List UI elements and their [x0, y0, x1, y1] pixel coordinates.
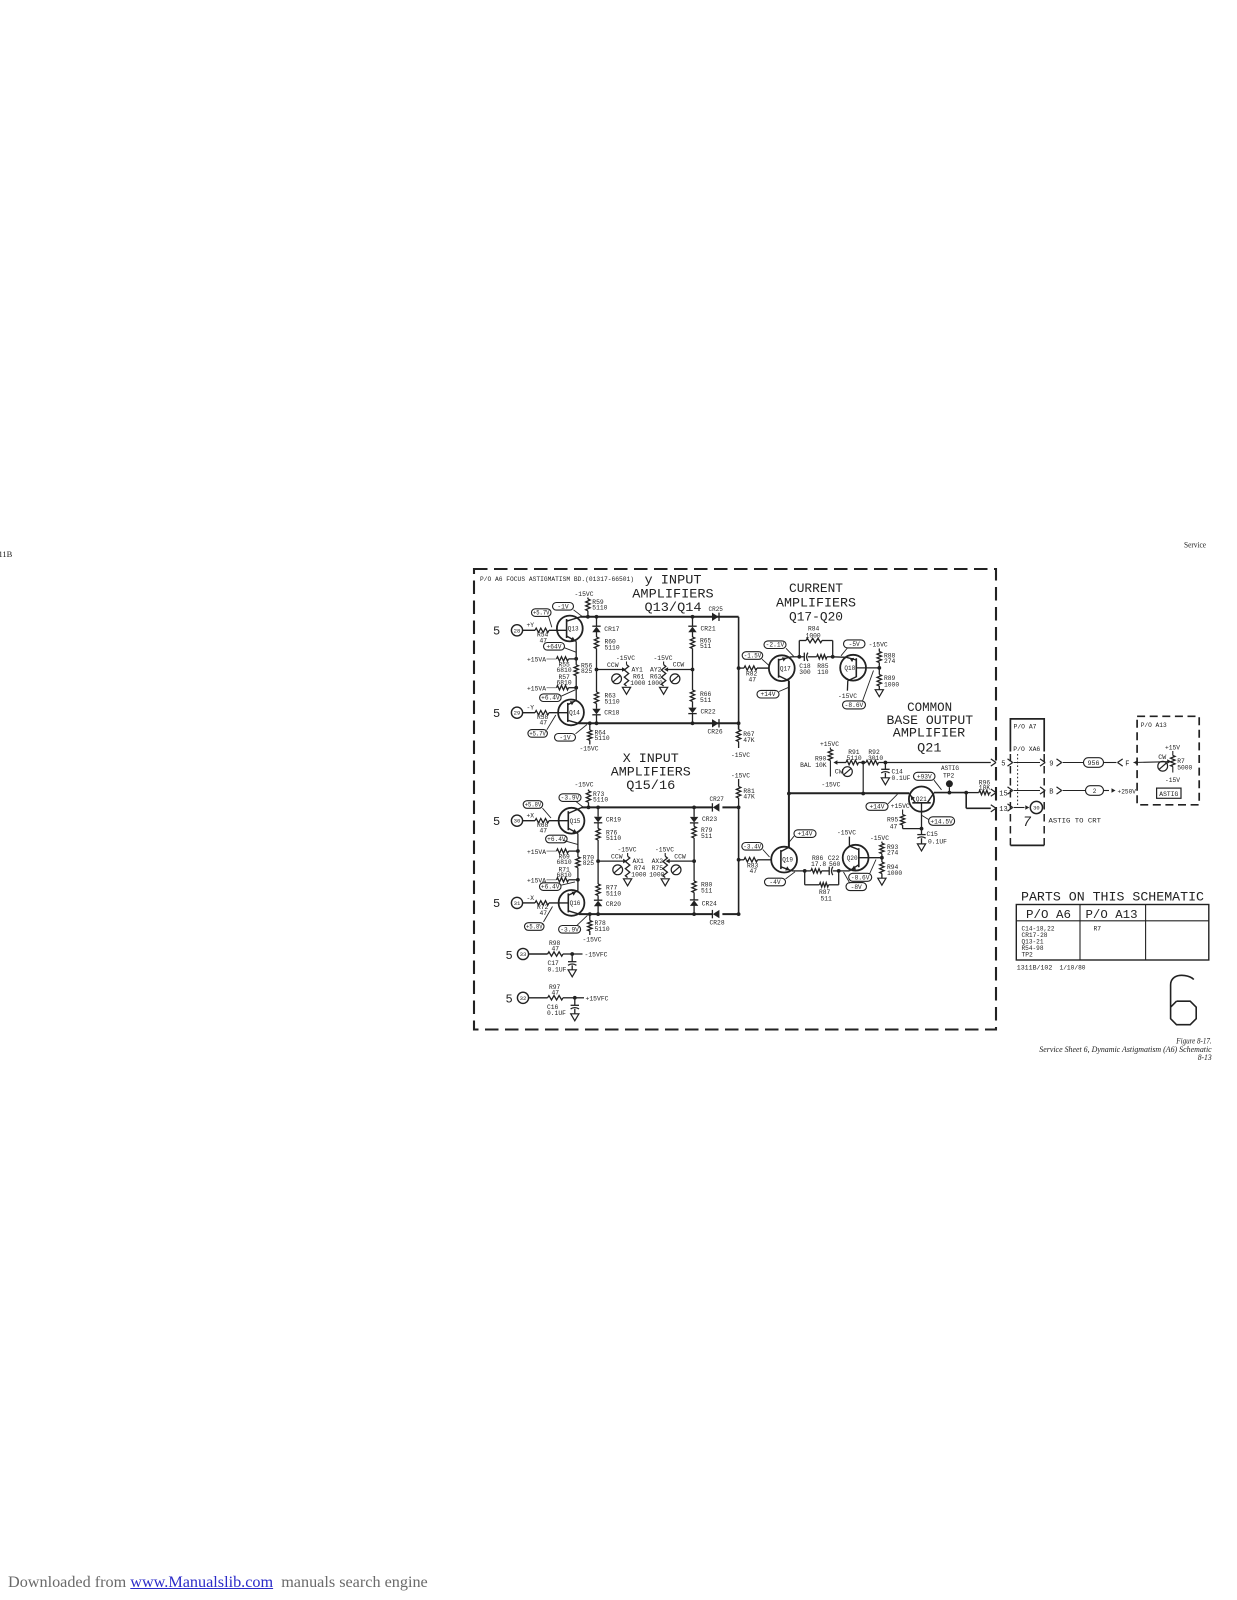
power -15VC label (R81)	[731, 772, 750, 779]
ground below R89	[875, 690, 883, 697]
svg-text:-15VC: -15VC	[869, 642, 888, 649]
svg-text:ASTIG: ASTIG	[941, 765, 959, 772]
pin 29 (-Y) with 5 label	[493, 705, 534, 721]
svg-text:CR23: CR23	[702, 816, 717, 823]
wire Y top bus	[581, 616, 739, 618]
svg-text:F: F	[1125, 760, 1129, 768]
svg-text:5110: 5110	[595, 926, 610, 933]
ground below R94	[878, 878, 886, 885]
resistor R91 5110	[846, 749, 866, 765]
power -15VC label (R90 bottom)	[821, 781, 840, 788]
svg-text:5: 5	[493, 707, 500, 721]
svg-text:-15V: -15V	[1165, 777, 1180, 784]
resistor R95 47	[887, 810, 922, 831]
svg-text:+5.8V: +5.8V	[526, 924, 543, 931]
junction R56/R57/Q14 collector	[574, 686, 578, 690]
svg-text:13: 13	[999, 806, 1007, 814]
junction R65/AY2 wiper	[691, 668, 695, 672]
voltage callout -2.1V (Q17 collector)	[764, 641, 794, 657]
svg-text:COMMON: COMMON	[907, 701, 952, 715]
svg-text:-15VC: -15VC	[731, 752, 750, 759]
svg-text:CR25: CR25	[709, 606, 724, 613]
svg-text:274: 274	[887, 850, 899, 857]
diode CR20	[594, 900, 621, 914]
junction Q13 emitter / R55 / R56	[574, 657, 578, 661]
svg-text:y INPUT: y INPUT	[645, 573, 703, 587]
resistor R80 511	[692, 861, 713, 900]
voltage callout +6.4V (Q15 emitter)	[546, 835, 578, 844]
resistor R73 5110	[586, 790, 608, 808]
svg-text:47: 47	[552, 990, 560, 997]
svg-text:47: 47	[750, 868, 758, 875]
service sheet number 6 glyph	[1171, 975, 1197, 1024]
svg-text:5110: 5110	[605, 645, 620, 652]
svg-text:+5.7V: +5.7V	[529, 730, 546, 737]
power -15VC label (R73)	[575, 781, 594, 788]
page header text Service	[1184, 541, 1206, 550]
diode CR28 on X bottom bus	[710, 910, 725, 927]
svg-text:274: 274	[884, 658, 896, 665]
svg-text:-15VC: -15VC	[870, 835, 889, 842]
junction R97/C16	[573, 996, 577, 1000]
voltage callout +6.4V (Q16 collector)	[540, 882, 576, 891]
junction R96 / pin13 branch	[964, 791, 968, 795]
title Y INPUT AMPLIFIERS Q13/Q14	[632, 573, 713, 615]
wire Q18 emitter to -15VC	[846, 681, 848, 691]
diode CR25 on Y top bus	[709, 606, 724, 621]
label ASTIG TO CRT	[1049, 818, 1102, 825]
junction Q15 emitter / R69 / R70	[576, 849, 580, 853]
svg-text:7: 7	[1023, 814, 1031, 829]
junction Q21 base / R95 / C15	[920, 827, 924, 831]
exit arrow node 15 at border	[991, 789, 1008, 798]
svg-text:ASTIG: ASTIG	[1159, 791, 1178, 798]
svg-text:C15: C15	[927, 831, 939, 838]
power -15VC label (Q18 emitter)	[838, 693, 857, 700]
svg-text:6810: 6810	[557, 680, 572, 687]
resistor R82 47	[739, 666, 769, 684]
svg-text:5000: 5000	[1177, 764, 1192, 771]
svg-text:CR20: CR20	[606, 901, 621, 908]
svg-text:AY2: AY2	[650, 666, 662, 673]
svg-text:5: 5	[506, 949, 513, 963]
voltage callout +14.5V (Q21 base)	[922, 816, 955, 826]
svg-text:-15VC: -15VC	[837, 829, 856, 836]
exit arrow node 5 at border	[991, 759, 1006, 768]
svg-text:B: B	[1049, 788, 1053, 796]
svg-text:-4V: -4V	[769, 879, 781, 886]
svg-text:AY1: AY1	[632, 666, 644, 673]
svg-text:+14V: +14V	[870, 804, 885, 811]
svg-text:Q20: Q20	[847, 855, 858, 862]
resistor R54 47	[535, 628, 549, 644]
svg-text:CR28: CR28	[710, 920, 725, 927]
capacitor C18 300	[799, 653, 816, 676]
svg-text:511: 511	[821, 895, 833, 902]
power -15VC label (Q20 collector)	[837, 829, 856, 836]
svg-text:5: 5	[493, 897, 500, 911]
svg-text:-15VC: -15VC	[838, 693, 857, 700]
schematic board dashed border (P/O A6)	[474, 569, 996, 1030]
figure caption	[1039, 1036, 1212, 1062]
wire right vertical (CR25 bus to R67)	[738, 617, 740, 730]
svg-text:PARTS ON THIS SCHEMATIC: PARTS ON THIS SCHEMATIC	[1021, 890, 1204, 905]
svg-text:-15VC: -15VC	[583, 936, 602, 943]
svg-text:CCW: CCW	[611, 854, 623, 861]
svg-text:10K: 10K	[979, 785, 991, 792]
svg-text:-8.6V: -8.6V	[845, 702, 864, 709]
svg-text:AX2: AX2	[652, 858, 664, 865]
svg-text:+5.7V: +5.7V	[533, 610, 550, 617]
svg-text:511: 511	[701, 833, 713, 840]
wire branch down to pin 13 row	[966, 793, 991, 809]
resistor R58 47	[535, 711, 549, 727]
junction R79/AX2 wiper	[692, 859, 696, 863]
trimmer mark R7	[1158, 761, 1168, 771]
parts list column A13 R7	[1094, 926, 1102, 933]
svg-text:Q21: Q21	[917, 742, 941, 756]
svg-text:+14V: +14V	[798, 831, 813, 838]
svg-text:TP2: TP2	[943, 772, 955, 779]
document number 1311B/102 1/10/80	[1017, 964, 1086, 971]
panel label ASTIG boxed	[1157, 788, 1181, 798]
pot AY1 R61 1000 with CCW and -15VC	[597, 655, 646, 687]
trimmer mark AX2	[671, 865, 681, 875]
resistor R70 825	[576, 851, 595, 880]
svg-text:47K: 47K	[743, 737, 755, 744]
transistor Q14	[558, 700, 584, 726]
svg-text:P/O A6: P/O A6	[1026, 909, 1071, 922]
svg-text:1000: 1000	[631, 871, 646, 878]
resistor R83 47	[739, 858, 772, 876]
svg-text:X INPUT: X INPUT	[623, 752, 680, 766]
pin 33 with 5 label	[506, 948, 529, 962]
resistor R68 47	[535, 819, 549, 835]
svg-text:R7: R7	[1094, 926, 1102, 933]
diode CR27 on X top bus	[710, 796, 725, 811]
transistor Q17	[769, 655, 795, 681]
svg-text:+15VC: +15VC	[820, 741, 839, 748]
voltage callout -1.5V (Q17 base)	[742, 652, 769, 666]
svg-text:0.1UF: 0.1UF	[928, 838, 947, 845]
svg-text:Q15: Q15	[570, 818, 581, 825]
left margin text 11B	[0, 549, 13, 559]
svg-text:-15VC: -15VC	[731, 772, 750, 779]
svg-text:825: 825	[581, 668, 593, 675]
resistor R84 1000 feedback	[799, 626, 832, 657]
exit arrow node 13 at border	[991, 805, 1008, 814]
resistor R72 47	[535, 901, 549, 917]
pot R7 5000 ASTIG	[1167, 751, 1192, 773]
node junctions on X buses	[587, 806, 741, 916]
svg-text:+14.5V: +14.5V	[930, 819, 953, 826]
service sheet number 7	[1023, 814, 1031, 829]
svg-text:CCW: CCW	[673, 662, 685, 669]
wire X top bus	[582, 806, 739, 808]
svg-text:-15VC: -15VC	[575, 781, 594, 788]
junction Q20 base/R93/R94	[880, 856, 884, 860]
transistor Q13	[557, 616, 583, 642]
wire Q20 collector to -15VC	[848, 837, 851, 847]
voltage callout +64V (Q13 emitter)	[544, 643, 577, 653]
svg-text:5110: 5110	[605, 699, 620, 706]
svg-text:-15VC: -15VC	[655, 847, 674, 854]
voltage callout +5.8V (Q16 base)	[525, 907, 553, 931]
assembly box P/O A13 dashed	[1137, 716, 1199, 805]
svg-text:30: 30	[514, 818, 521, 825]
resistor R60 5110	[594, 637, 620, 670]
power +15VA label (upper, Y)	[527, 657, 557, 664]
svg-text:-15VC: -15VC	[618, 847, 637, 854]
voltage callout -3.4V (Q19 base)	[742, 843, 770, 858]
svg-text:R95: R95	[887, 816, 899, 823]
svg-text:Service: Service	[1184, 541, 1206, 550]
ground below C16	[571, 1014, 579, 1021]
power +15V label (R7)	[1165, 745, 1180, 752]
transistor Q20	[843, 845, 869, 871]
svg-text:9: 9	[1049, 760, 1053, 768]
resistor R66 511	[690, 670, 711, 708]
svg-text:5: 5	[493, 625, 500, 639]
svg-text:BAL 10K: BAL 10K	[800, 762, 827, 769]
resistor R55 6810	[557, 657, 577, 674]
svg-text:511: 511	[700, 643, 712, 650]
voltage callout -1V (Q14 emitter)	[555, 725, 588, 742]
XA6 pin row 15-B	[1008, 787, 1086, 797]
junction R84/R85 right	[831, 655, 835, 659]
svg-text:47: 47	[890, 823, 898, 830]
resistor R89 1000	[877, 668, 899, 690]
capacitor C14 0.1UF	[881, 763, 910, 782]
svg-text:-15VC: -15VC	[654, 655, 673, 662]
svg-text:1000: 1000	[806, 633, 821, 640]
resistor R97 47	[529, 984, 575, 1000]
svg-text:TP2: TP2	[1022, 952, 1034, 959]
svg-text:-15VC: -15VC	[580, 746, 599, 753]
voltage callout -5V (Q18 collector)	[841, 640, 865, 656]
svg-text:+64V: +64V	[547, 643, 562, 650]
resistor R57 6810	[527, 674, 576, 692]
svg-text:P/O A13: P/O A13	[1141, 722, 1167, 729]
resistor R86 17.8	[805, 855, 830, 873]
svg-text:110: 110	[817, 669, 829, 676]
wire Q18 base to R88/R89	[856, 667, 879, 669]
voltage callout -4V (Q19 emitter)	[765, 872, 796, 886]
svg-text:8-13: 8-13	[1198, 1053, 1212, 1062]
resistor R77 5110	[596, 861, 621, 900]
trimmer mark R90	[843, 767, 853, 777]
diode CR17	[592, 617, 619, 637]
power -15V label (R7 bottom)	[1165, 777, 1180, 784]
destination circle 30	[1030, 801, 1042, 813]
power -15VC label (R93)	[870, 835, 889, 842]
svg-text:560: 560	[829, 861, 841, 868]
svg-text:Q19: Q19	[782, 857, 793, 864]
title COMMON BASE OUTPUT AMPLIFIER Q21	[887, 701, 974, 756]
junction C18/R84 left	[797, 655, 801, 659]
svg-text:6810: 6810	[557, 667, 572, 674]
svg-text:5110: 5110	[606, 891, 621, 898]
voltage callout +93V (Q21 collector)	[914, 772, 942, 790]
voltage callout -8.6V (Q20 base)	[849, 860, 876, 882]
svg-text:5110: 5110	[592, 605, 607, 612]
wire jumper 956	[1084, 758, 1117, 768]
power -15VC label (R67)	[731, 752, 750, 759]
svg-text:CR19: CR19	[606, 816, 621, 823]
junction R82 tap on CR25 column	[737, 666, 741, 670]
svg-text:956: 956	[1088, 760, 1100, 767]
voltage callout -1V (Q13 collector)	[553, 603, 582, 617]
pin 28 (+Y) with 5 label	[493, 622, 534, 638]
ground below C17	[568, 970, 576, 977]
wire pin28 to R54	[523, 629, 535, 631]
voltage callout +5.8V (Q15 base)	[523, 801, 551, 818]
pin 31 (-X) with 5 label	[493, 895, 534, 911]
svg-text:300: 300	[799, 669, 811, 676]
voltage callout -3.9V (Q15 collector)	[559, 794, 583, 807]
power +15VA label (upper, X)	[527, 849, 557, 856]
svg-text:28: 28	[514, 627, 521, 634]
CW label (R7)	[1158, 754, 1166, 761]
node junctions on Y buses	[586, 615, 740, 725]
ground below C14	[881, 778, 889, 785]
svg-text:Q16: Q16	[570, 900, 581, 907]
svg-text:+93V: +93V	[917, 774, 932, 781]
power -15VC label (R88)	[869, 642, 888, 649]
resistor R56 825	[574, 659, 593, 688]
svg-text:33: 33	[520, 951, 527, 958]
svg-text:47: 47	[540, 828, 548, 835]
wire Q20 base to R93/R94	[859, 857, 882, 859]
svg-text:-X: -X	[527, 895, 535, 902]
svg-text:+15VFC: +15VFC	[586, 995, 609, 1002]
connector box P/O A7	[1010, 719, 1044, 752]
junction R86/R87 left	[803, 869, 807, 873]
resistor R87 511 (parallel)	[805, 871, 839, 903]
parts table header P/O A13	[1086, 909, 1138, 922]
transistor Q18	[840, 655, 866, 681]
ground below C15	[917, 844, 925, 851]
svg-text:AMPLIFIERS: AMPLIFIERS	[632, 587, 713, 601]
wire R58 to Q14 base	[549, 712, 568, 714]
svg-text:+15VA: +15VA	[527, 657, 546, 664]
power -15VFC label	[572, 952, 608, 959]
capacitor C17 0.1UF	[548, 954, 577, 973]
wire Q21 collector line to R96	[934, 792, 966, 794]
power +15VC label (R90)	[820, 741, 839, 748]
svg-text:11B: 11B	[0, 549, 13, 559]
trimmer mark AX1	[613, 865, 623, 875]
svg-text:CR27: CR27	[710, 796, 725, 803]
parts list column A6	[1022, 926, 1055, 959]
transistor Q21 (rotated)	[909, 787, 934, 812]
svg-text:Q18: Q18	[844, 665, 855, 672]
svg-text:Q21: Q21	[916, 796, 927, 803]
svg-text:CR21: CR21	[701, 625, 716, 632]
wire Q21 feed line	[789, 792, 909, 794]
voltage callout -8.6V (Q18)	[843, 671, 874, 710]
diode CR18	[592, 709, 619, 724]
board title label	[480, 576, 634, 583]
voltage callout +6.4V (Q14 collector)	[540, 690, 576, 702]
svg-text:31: 31	[514, 900, 521, 907]
wire Q21 base down to C15	[921, 803, 923, 829]
wire Q13 emitter down	[575, 641, 577, 658]
svg-text:1/10/80: 1/10/80	[1060, 964, 1086, 971]
svg-text:+X: +X	[527, 813, 535, 820]
wire R72 to Q16 base	[549, 902, 568, 904]
trimmer mark AY1	[612, 674, 622, 684]
resistor R85 110	[817, 655, 833, 676]
svg-text:0.1UF: 0.1UF	[548, 966, 567, 973]
wire pin30 to R68	[523, 820, 535, 822]
svg-text:+15V: +15V	[1165, 745, 1180, 752]
svg-text:CW: CW	[1158, 754, 1166, 761]
junction main vertical / Q21 feed	[787, 792, 791, 796]
svg-text:1000: 1000	[887, 870, 902, 877]
voltage callout +14V (Q19 collector)	[789, 830, 816, 842]
transistor Q19	[771, 847, 797, 873]
svg-text:CR22: CR22	[701, 708, 716, 715]
wire C22 to Q20 emitter	[839, 870, 850, 872]
pin 32 with 5 label	[506, 992, 529, 1006]
wire pin31 to R72	[523, 902, 535, 904]
open arrow below AX2	[661, 879, 669, 886]
svg-text:CURRENT: CURRENT	[789, 582, 844, 596]
junction R76/AX1 wiper	[596, 859, 600, 863]
diode CR21	[688, 617, 716, 637]
svg-text:CR24: CR24	[702, 900, 717, 907]
open arrow below AY2	[660, 687, 668, 694]
junction CR27 / R81	[737, 806, 741, 810]
voltage callout +5.7V (Q14 base)	[528, 715, 556, 737]
trimmer mark AY2	[670, 674, 680, 684]
junction Q18 base/R88/R89	[877, 666, 881, 670]
pot AX2 R75 1000 with CCW and -15VC	[649, 847, 694, 879]
resistor R63 5110	[594, 670, 620, 709]
resistor R64 5110	[588, 723, 610, 744]
junction C22/R87 right	[837, 869, 841, 873]
svg-text:ASTIG TO CRT: ASTIG TO CRT	[1049, 818, 1102, 825]
diode CR22	[688, 708, 716, 724]
pot R90 BAL 10K	[800, 748, 846, 777]
diode CR26 on Y bottom bus	[708, 719, 723, 735]
wire jumper 2	[1086, 786, 1110, 796]
XA6 keying dotted line	[1017, 754, 1019, 808]
svg-text:+250V: +250V	[1118, 788, 1137, 795]
resistor R59 5110	[586, 598, 608, 617]
resistor R88 274	[877, 649, 895, 668]
svg-text:AMPLIFIERS: AMPLIFIERS	[611, 766, 691, 780]
capacitor C22 560	[828, 855, 841, 875]
connector pin F to A13	[1118, 759, 1169, 768]
svg-text:-15VC: -15VC	[821, 781, 840, 788]
svg-text:5: 5	[1001, 760, 1005, 768]
svg-text:P/O A13: P/O A13	[1086, 909, 1138, 922]
svg-text:1311B/102: 1311B/102	[1017, 964, 1053, 971]
CW label (R90)	[835, 769, 843, 776]
svg-text:Q14: Q14	[569, 710, 580, 717]
pin 30 (+X) with 5 label	[493, 813, 534, 829]
svg-text:P/O A7: P/O A7	[1014, 724, 1037, 731]
diode CR19	[594, 807, 621, 828]
svg-text:-5V: -5V	[849, 641, 861, 648]
wire Q17 collector node	[792, 656, 805, 658]
wire to Q16 collector	[577, 880, 579, 891]
wire to Q14 collector	[575, 688, 577, 701]
svg-text:0.1UF: 0.1UF	[892, 775, 911, 782]
svg-text:2: 2	[1093, 788, 1097, 795]
